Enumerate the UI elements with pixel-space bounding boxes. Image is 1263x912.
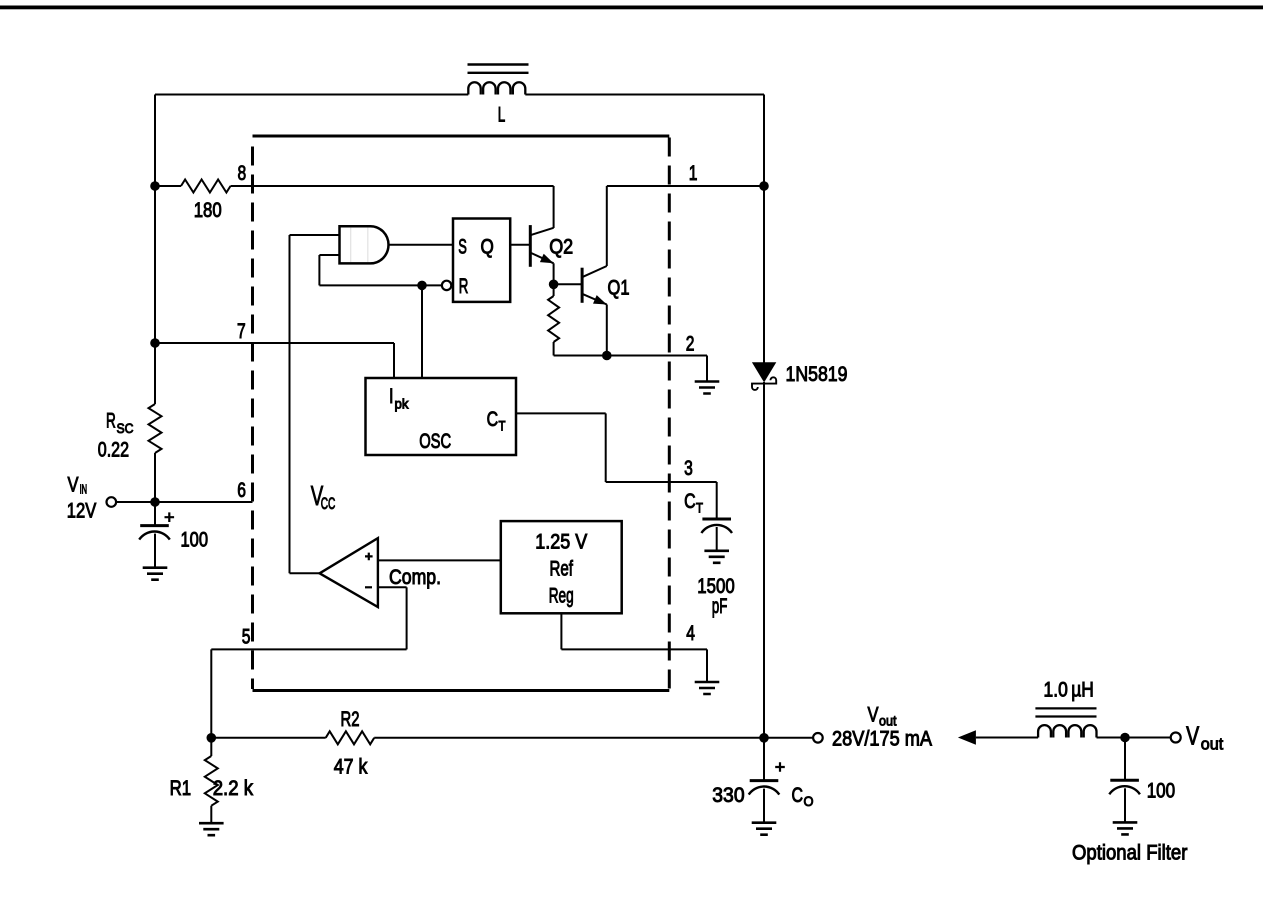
IC box left dashed edge (251, 138, 254, 690)
capacitor CT (702, 518, 731, 521)
transistor Q1 (581, 268, 584, 303)
node pin7 junction (150, 338, 160, 348)
svg-text:2.2 k: 2.2 k (213, 777, 254, 800)
svg-text:S: S (458, 236, 467, 259)
svg-text:V: V (868, 704, 879, 727)
transistor Q2 (529, 225, 532, 267)
wire emitter resistor (553, 284, 555, 296)
svg-text:330: 330 (712, 784, 744, 807)
comparator Comp (320, 538, 378, 607)
svg-text:28V/175 mA: 28V/175 mA (832, 728, 932, 751)
wire comparator plus input (378, 559, 501, 561)
wire Co to ground (763, 789, 765, 823)
svg-text:OSC: OSC (419, 430, 451, 453)
svg-text:out: out (879, 713, 897, 729)
svg-text:T: T (696, 500, 703, 516)
svg-text:7: 7 (237, 320, 246, 343)
wire Vin to junction (116, 501, 155, 503)
svg-text:Comp.: Comp. (389, 566, 441, 589)
wire CT cap to ground (716, 527, 718, 551)
svg-text:180: 180 (194, 199, 222, 222)
wire and gate lower input (319, 254, 339, 256)
wire pin6 (155, 501, 253, 503)
wire R junction to OSC (421, 285, 423, 378)
wire left rail upper (154, 95, 156, 405)
wire pin1 (607, 185, 764, 187)
ground pin4 (695, 682, 720, 694)
ground CT cap (704, 551, 729, 563)
ground Co (752, 823, 777, 835)
node pin1 junction (759, 181, 769, 191)
svg-text:100: 100 (1147, 780, 1176, 803)
svg-text:Q1: Q1 (608, 277, 630, 300)
comparator minus sign (365, 586, 372, 588)
wire pin2 (607, 355, 707, 357)
wire pin8 left stub (155, 185, 181, 187)
svg-text:Optional Filter: Optional Filter (1072, 842, 1187, 865)
terminal Vout main (813, 733, 823, 743)
svg-text:1.25 V: 1.25 V (535, 531, 587, 554)
filter capacitor 100 (1110, 779, 1139, 782)
wire and gate output (389, 244, 454, 246)
capacitor 100 input (140, 524, 169, 527)
node pin6 junction (150, 497, 160, 507)
ground filter cap (1113, 822, 1138, 834)
wire top rail right segment (525, 94, 764, 96)
svg-text:V: V (1186, 721, 1200, 751)
wire comparator output to and gate (289, 235, 291, 573)
wire and gate upper input (290, 234, 340, 236)
svg-text:2: 2 (686, 333, 695, 356)
svg-text:6: 6 (237, 479, 246, 502)
IC box right dashed edge (668, 138, 671, 690)
wire output rail right (374, 737, 813, 739)
wire Q2 emitter down (553, 263, 555, 284)
svg-text:100: 100 (181, 529, 209, 552)
node output junction (759, 733, 769, 743)
svg-text:Q2: Q2 (549, 236, 573, 259)
top rule (0, 6, 1263, 10)
svg-text:1N5819: 1N5819 (786, 363, 848, 386)
wire R1 to ground (210, 806, 212, 824)
IC box bottom edge (253, 689, 670, 692)
wire pin8 to Q2 collector (231, 185, 554, 187)
inductor L (468, 82, 525, 94)
resistor 180 (181, 180, 231, 193)
svg-text:C: C (792, 784, 804, 807)
wire filter cap (1124, 738, 1126, 781)
node R1 R2 junction (207, 733, 217, 743)
node R input junction (417, 281, 427, 291)
latch R inversion bubble (442, 281, 451, 290)
oscillator OSC box (366, 378, 517, 455)
svg-text:1: 1 (689, 162, 698, 185)
ground pin2 (695, 382, 720, 394)
wire Q1 emitter down (606, 305, 608, 356)
svg-text:R2: R2 (341, 708, 360, 731)
wire filter cap to ground (1124, 788, 1126, 822)
capacitor 100 input plus sign (165, 512, 175, 522)
svg-text:47 k: 47 k (334, 755, 368, 778)
svg-text:CC: CC (321, 494, 336, 513)
svg-text:4: 4 (686, 622, 695, 645)
node pin8 junction (150, 181, 160, 191)
svg-text:O: O (804, 793, 814, 809)
svg-text:SC: SC (117, 420, 134, 436)
ground input cap (143, 568, 168, 580)
svg-text:pF: pF (712, 595, 728, 618)
svg-text:12V: 12V (67, 500, 97, 523)
svg-text:3: 3 (684, 457, 693, 480)
svg-text:out: out (1201, 735, 1224, 754)
svg-text:V: V (68, 474, 79, 497)
wire Q1 collector (606, 186, 608, 266)
resistor R1 (205, 756, 218, 806)
svg-text:IN: IN (80, 482, 88, 497)
wire comparator minus input (378, 586, 407, 588)
diode 1N5819 (752, 362, 776, 382)
wire top rail left segment (155, 94, 468, 96)
capacitor Co plus sign (775, 762, 785, 772)
node filter junction (1120, 733, 1130, 743)
wire pin3 (516, 412, 606, 414)
wire left rail lower (154, 453, 156, 526)
node pin2 junction (602, 351, 612, 361)
svg-text:I: I (389, 385, 394, 408)
wire filter output (1097, 737, 1171, 739)
and gate U1 (340, 226, 389, 263)
svg-text:Reg: Reg (549, 585, 574, 608)
svg-text:C: C (684, 490, 696, 513)
wire right rail lower (763, 382, 765, 781)
resistor Rsc (149, 404, 162, 453)
terminal Vout filtered (1171, 733, 1181, 743)
filter inductor 1uH (1038, 725, 1096, 737)
wire pin5 (211, 648, 406, 650)
wire pin4 (560, 613, 562, 649)
capacitor Co (750, 779, 779, 782)
reference Ref Reg box (501, 521, 622, 613)
node Q2 emitter junction (549, 280, 559, 290)
ground R1 (199, 823, 224, 835)
terminal Vin (107, 497, 117, 507)
svg-text:R1: R1 (170, 777, 192, 800)
wire input cap to ground (154, 534, 156, 568)
wire output rail left (211, 737, 325, 739)
wire pin7 (155, 342, 394, 344)
IC box top edge (253, 135, 670, 138)
svg-text:L: L (498, 104, 506, 127)
svg-text:Ref: Ref (549, 558, 573, 581)
wire Q2 emitter to Q1 base (554, 283, 583, 285)
resistor R2 (326, 731, 375, 744)
svg-text:5: 5 (242, 626, 251, 649)
svg-text:0.22: 0.22 (98, 439, 129, 462)
latch box (453, 219, 510, 302)
resistor Q2 emitter (548, 296, 559, 342)
comparator plus sign (365, 553, 373, 561)
wire right rail upper (763, 95, 765, 363)
svg-text:R: R (106, 410, 116, 433)
wire junction to R1 (210, 738, 212, 756)
svg-text:R: R (459, 275, 469, 298)
svg-text:T: T (499, 418, 506, 434)
svg-text:pk: pk (395, 396, 410, 412)
svg-text:C: C (487, 408, 499, 431)
arrow to optional filter (958, 730, 976, 745)
svg-text:Q: Q (481, 236, 494, 259)
svg-text:8: 8 (238, 162, 247, 185)
wire latch Q to Q2 base (510, 244, 530, 246)
svg-text:1.0 µH: 1.0 µH (1044, 679, 1094, 702)
